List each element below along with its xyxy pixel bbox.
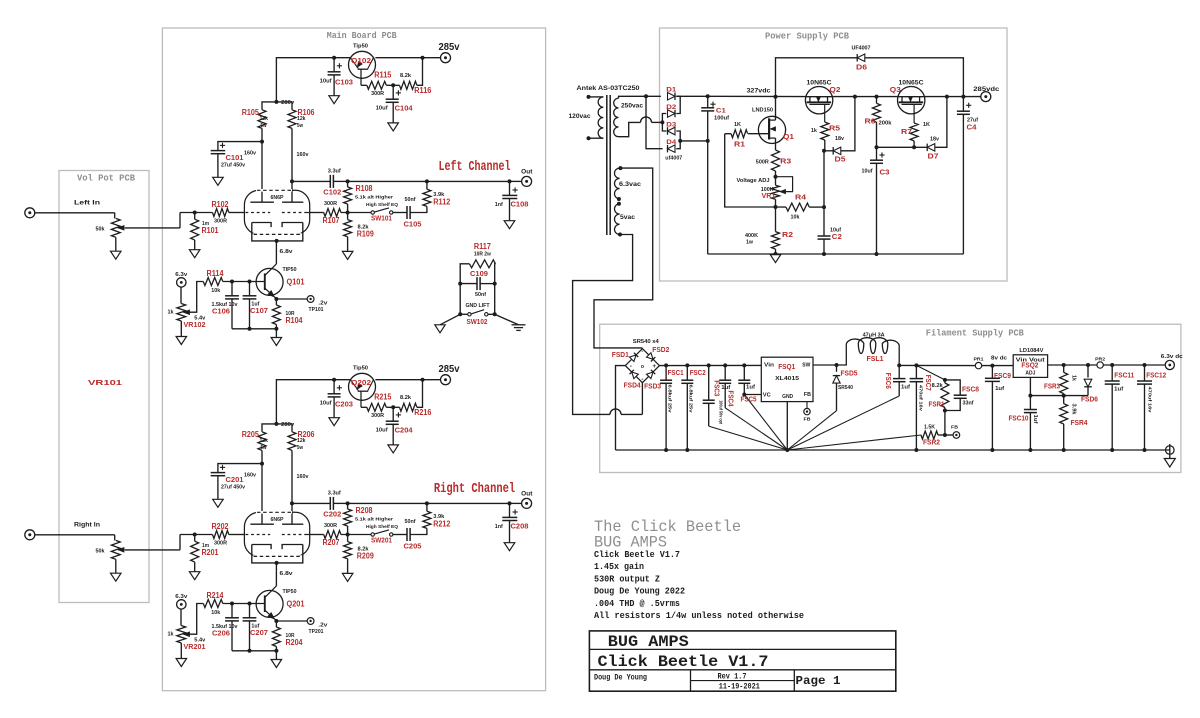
rectifier D2	[668, 110, 676, 117]
svg-text:Q202: Q202	[351, 378, 371, 387]
resistor R105 12k 5w	[258, 110, 266, 129]
svg-text:6.8v: 6.8v	[280, 571, 294, 577]
svg-text:FSC12: FSC12	[1146, 370, 1166, 379]
svg-text:uf4007: uf4007	[665, 155, 682, 161]
capacitor C103 10uf	[333, 58, 335, 72]
6.3v filament feed terminal	[177, 278, 186, 287]
svg-text:1.5K: 1.5K	[924, 425, 935, 431]
svg-text:BUG AMPS: BUG AMPS	[594, 534, 667, 552]
svg-text:XL4015: XL4015	[775, 376, 800, 382]
svg-text:ADJ: ADJ	[1025, 370, 1035, 376]
svg-text:D3: D3	[666, 121, 676, 128]
svg-text:Right Channel: Right Channel	[434, 481, 515, 497]
resistor R207 300R	[310, 534, 324, 536]
svg-text:C3: C3	[880, 168, 890, 177]
capacitor C1 100uf	[707, 96, 709, 108]
capacitor C102 3.3uf coupling	[292, 180, 330, 182]
svg-text:C202: C202	[323, 509, 341, 518]
resistor R108 5.1k	[347, 181, 349, 187]
svg-text:R108: R108	[356, 184, 373, 193]
bridge rectifier FSD1-FSD4 SR540 x4	[625, 349, 659, 383]
svg-text:Tip50: Tip50	[353, 366, 368, 372]
svg-text:6.3v: 6.3v	[175, 272, 188, 278]
ground below pot (Right)	[111, 573, 122, 581]
wire 280v to plate resistors	[262, 424, 292, 432]
svg-text:R101: R101	[202, 226, 219, 235]
svg-text:50nf: 50nf	[405, 197, 416, 203]
svg-text:SW102: SW102	[467, 317, 488, 326]
wiper wire to main board (Right)	[125, 549, 180, 551]
transformer secondary 5vac	[614, 204, 619, 235]
svg-text:FSC4: FSC4	[726, 391, 735, 407]
MOSFET Q3 10N65C	[898, 87, 925, 114]
switch SW102 ground lift	[458, 312, 462, 316]
MOSFET Q1 LND150	[758, 116, 785, 143]
output wire 6.3v dc	[1103, 364, 1165, 366]
capacitor C106 1.5kuf 10v	[225, 295, 239, 297]
svg-text:FSC1: FSC1	[668, 368, 684, 377]
resistor R101 1m to ground	[194, 213, 196, 220]
resistor R202 300R grid stopper	[180, 534, 213, 536]
regulator FSQ1 XL4015	[761, 357, 813, 401]
capacitor C201 27uf 450v	[218, 464, 262, 473]
svg-text:FSR2: FSR2	[923, 438, 940, 447]
svg-text:.2v: .2v	[318, 622, 328, 628]
svg-text:Voltage ADJ: Voltage ADJ	[737, 178, 770, 184]
svg-text:470uf 16v: 470uf 16v	[1147, 387, 1153, 413]
vacuum tube 6N6P (Left)	[244, 190, 309, 234]
FSQ1 VC wire	[744, 394, 761, 396]
ground below C204	[388, 445, 399, 453]
ground below R204	[271, 660, 282, 668]
tube plate bars	[250, 201, 274, 203]
svg-text:Doug De Young: Doug De Young	[594, 674, 647, 683]
capacitor C208 1nf	[509, 503, 511, 517]
transformer secondary 250vac	[614, 98, 619, 136]
tube grids (dashed)	[246, 534, 271, 536]
potentiometer VR102 1k 5.4v	[180, 287, 182, 303]
svg-text:FSC10: FSC10	[1009, 414, 1029, 423]
svg-text:C201: C201	[226, 475, 244, 484]
tube cathode pin	[275, 239, 279, 243]
wire 280v to plate resistors	[262, 102, 292, 110]
svg-text:300R: 300R	[371, 91, 384, 97]
svg-text:VR1: VR1	[762, 191, 776, 200]
svg-text:327vdc: 327vdc	[747, 88, 771, 95]
junction EQ mid	[346, 211, 350, 215]
svg-text:R116: R116	[414, 86, 431, 95]
MOSFET Q2 10N65C	[805, 87, 832, 114]
svg-text:12k: 12k	[260, 116, 269, 122]
svg-text:3.3uf: 3.3uf	[328, 169, 341, 175]
6.3v filament feed terminal	[177, 600, 186, 609]
svg-text:SR540: SR540	[838, 385, 853, 391]
svg-text:Q201: Q201	[287, 600, 305, 609]
transformer secondary 6.3vac	[614, 168, 619, 199]
svg-text:FSQ2: FSQ2	[1021, 360, 1038, 369]
svg-text:160v: 160v	[297, 474, 310, 480]
FSQ1 GND pin to ground rail	[786, 402, 788, 450]
svg-text:FSQ1: FSQ1	[778, 362, 795, 371]
junction D5 return	[853, 95, 857, 99]
svg-text:VR102: VR102	[184, 320, 206, 329]
svg-text:Q3: Q3	[890, 85, 901, 94]
svg-text:C101: C101	[226, 153, 244, 162]
capacitor C105 50nf	[393, 212, 407, 214]
ground below C201	[213, 499, 224, 507]
junction R215/R216/C204	[391, 405, 395, 409]
svg-text:500R: 500R	[756, 160, 769, 166]
resistor R6 200k	[875, 95, 879, 99]
svg-text:FSC11: FSC11	[1114, 370, 1134, 379]
capacitor FSC6 1uf	[898, 365, 900, 378]
svg-text:UF4007: UF4007	[852, 46, 871, 52]
input pot 50k (Left)	[114, 213, 116, 219]
chassis ground (earth)	[512, 324, 526, 326]
svg-text:TP201: TP201	[309, 629, 324, 635]
rectifier D3	[668, 127, 676, 135]
wire top node to R112 and output	[348, 180, 510, 182]
wire Q102 collector to 285v terminal	[375, 57, 440, 59]
svg-text:R207: R207	[323, 538, 340, 547]
resistor R3 500R	[772, 150, 780, 171]
resistor R204 10R	[275, 621, 277, 627]
svg-text:D6: D6	[856, 63, 867, 72]
resistor R206 12k 5w	[288, 432, 296, 451]
junction Q201 emitter	[274, 619, 278, 623]
svg-text:6N6P: 6N6P	[271, 517, 285, 523]
capacitor FSC7 470uf 16v	[914, 363, 918, 367]
svg-text:R3: R3	[780, 157, 791, 166]
resistor R102 300R grid stopper	[180, 212, 213, 214]
capacitor C207 1uf	[243, 617, 257, 619]
svg-text:TIP50: TIP50	[283, 589, 297, 595]
svg-text:1uf: 1uf	[1114, 387, 1123, 393]
svg-text:High Shelf EQ: High Shelf EQ	[366, 524, 398, 530]
transistor Q101 TIP50	[256, 268, 283, 295]
svg-text:280v: 280v	[281, 422, 295, 428]
resistor R1 1K	[725, 133, 731, 135]
svg-text:R215: R215	[374, 393, 391, 402]
resistor R208 5.1k	[347, 503, 349, 509]
capacitor C4 27uf	[962, 97, 964, 112]
ground below C108	[504, 221, 515, 229]
svg-text:1nf: 1nf	[495, 202, 503, 208]
transistor Q202 Tip50 (PNP pass)	[349, 373, 376, 400]
FSQ1 SW wire	[813, 364, 847, 366]
svg-text:285v: 285v	[439, 41, 460, 53]
bridge diode FSD2 (top-right edge)	[647, 353, 656, 362]
capacitor FSC10 1uf	[1029, 396, 1031, 410]
Out terminal	[510, 502, 522, 504]
terminal 285vdc	[981, 92, 991, 102]
svg-text:FSD2: FSD2	[652, 345, 669, 354]
filament earth ground	[1166, 446, 1175, 455]
svg-text:SW101: SW101	[371, 214, 392, 223]
svg-text:C105: C105	[404, 220, 422, 229]
svg-text:Vol Pot PCB: Vol Pot PCB	[77, 173, 135, 184]
wire R206 to tube plate / output node	[291, 450, 293, 524]
svg-text:Doug De Young 2022: Doug De Young 2022	[594, 587, 685, 597]
resistor R2 400K 1w	[772, 232, 780, 250]
svg-text:D7: D7	[928, 151, 939, 160]
node after inductor	[897, 363, 901, 367]
transistor Q201 TIP50	[256, 590, 283, 617]
svg-text:Antek AS-03TC250: Antek AS-03TC250	[577, 85, 640, 92]
svg-text:Click Beetle V1.7: Click Beetle V1.7	[598, 653, 769, 671]
svg-text:GND: GND	[782, 394, 793, 400]
svg-text:FSR3: FSR3	[1044, 382, 1060, 391]
svg-text:5vac: 5vac	[620, 214, 635, 221]
svg-text:R208: R208	[356, 506, 373, 515]
svg-text:FSD3: FSD3	[644, 382, 661, 391]
resistor R205 12k 5w	[258, 432, 266, 451]
svg-text:10uf: 10uf	[320, 401, 332, 407]
FSQ2 output wire	[1048, 364, 1097, 366]
tube cathode pin	[275, 561, 279, 565]
svg-text:FSD5: FSD5	[841, 368, 858, 377]
wire 280v node to Q102 base (vertical + top run)	[276, 58, 350, 102]
svg-text:SW: SW	[802, 362, 811, 368]
svg-text:470uf 16v: 470uf 16v	[918, 385, 924, 411]
svg-text:R202: R202	[212, 522, 229, 531]
resistor FSR4 3.9k	[1060, 404, 1068, 424]
svg-text:C1: C1	[716, 108, 726, 115]
capacitor FSC11 1uf	[1111, 365, 1113, 381]
svg-text:12k: 12k	[260, 438, 269, 444]
capacitor C204 10uf	[392, 407, 394, 421]
svg-text:6.3v: 6.3v	[175, 594, 188, 600]
wire Q202 collector to 285v terminal	[375, 379, 440, 381]
capacitor C108 1nf	[509, 181, 511, 195]
junction collector-R116 top	[421, 378, 425, 382]
svg-text:50nf: 50nf	[475, 292, 486, 298]
bridge diode FSD3 (bottom-right edge)	[647, 370, 656, 379]
resistor R212 3.9k	[426, 503, 428, 511]
wire FSR1 bottom to FB node	[944, 411, 946, 436]
svg-text:D5: D5	[835, 155, 846, 164]
zener FSD6	[1087, 365, 1089, 378]
junction EQ top	[346, 501, 350, 505]
svg-text:-: -	[641, 349, 643, 355]
svg-text:R214: R214	[207, 591, 224, 600]
output junction	[508, 501, 512, 505]
svg-text:C206: C206	[212, 628, 230, 637]
tube cathode box	[253, 555, 302, 558]
wire Q2-Q3 rail	[832, 96, 898, 98]
diode FSD5 SR540 freewheel	[836, 365, 838, 372]
svg-text:TP101: TP101	[309, 307, 324, 313]
svg-text:C102: C102	[323, 187, 341, 196]
wire cap bottoms bus	[231, 621, 233, 651]
feedback wire R1 to VR1 bottom	[725, 134, 776, 207]
wire top node to R212 and output	[348, 502, 510, 504]
svg-text:+: +	[653, 364, 657, 370]
capacitor C107 1uf	[243, 295, 257, 297]
svg-text:R2: R2	[782, 230, 793, 239]
svg-text:8.2k: 8.2k	[400, 395, 412, 401]
svg-text:6.3vac: 6.3vac	[619, 181, 642, 188]
svg-text:Power Supply PCB: Power Supply PCB	[765, 31, 849, 42]
capacitor C3 10uf	[870, 159, 883, 161]
FSQ1 FB test point	[806, 402, 808, 409]
capacitor FSC2 6.8kuf 25v	[685, 363, 689, 367]
wire to D4 cathode	[646, 96, 663, 148]
svg-text:6.3v dc: 6.3v dc	[1161, 354, 1183, 360]
wire VR102 wiper to R114	[190, 282, 203, 313]
svg-text:1K: 1K	[923, 122, 930, 128]
285v terminal (Left)	[441, 53, 451, 63]
svg-text:6N6P: 6N6P	[271, 195, 285, 201]
capacitor FSC5 1uf	[742, 363, 746, 367]
ground below R104	[271, 338, 282, 346]
resistor R201 1m to ground	[194, 535, 196, 542]
svg-text:R4: R4	[795, 193, 807, 202]
resistor FSR1 8.2k	[941, 383, 949, 408]
svg-text:10k: 10k	[211, 288, 221, 294]
svg-text:R114: R114	[207, 269, 224, 278]
switch SW201 High Shelf EQ	[371, 533, 374, 536]
svg-text:10uf: 10uf	[320, 79, 332, 85]
svg-text:.004 THD @ .5vrms: .004 THD @ .5vrms	[594, 599, 680, 609]
svg-text:Left In: Left In	[74, 200, 100, 207]
svg-text:Out: Out	[521, 170, 532, 176]
bridge bottom AC lead	[641, 383, 643, 415]
Out terminal	[510, 180, 522, 182]
junction R105/C101	[260, 140, 264, 144]
svg-text:FSC5: FSC5	[741, 394, 757, 403]
svg-text:FSL1: FSL1	[867, 354, 884, 363]
svg-text:6.8v: 6.8v	[280, 249, 294, 255]
svg-text:FB: FB	[804, 417, 812, 423]
wire cap bottoms bus	[231, 299, 233, 329]
svg-text:47μH 3A: 47μH 3A	[863, 332, 885, 338]
wire to signal ground	[440, 314, 460, 325]
svg-text:8.2k: 8.2k	[400, 73, 412, 79]
svg-text:Vin: Vin	[764, 362, 774, 368]
regulator FSQ2 LD1084V	[1013, 355, 1047, 378]
diode D6 UF4007 bypass	[776, 58, 858, 97]
bridge + output rail	[659, 364, 761, 366]
junction EQ top	[346, 179, 350, 183]
resistor FSR2 1.5K to ground fan	[921, 431, 938, 439]
svg-text:5w: 5w	[261, 445, 268, 451]
svg-text:18v: 18v	[930, 137, 940, 143]
Filament Supply PCB outline	[600, 324, 1181, 472]
junction R5/D5/C2	[822, 149, 826, 153]
filament ground rail	[616, 449, 1170, 451]
vacuum tube 6N6P (Right)	[244, 512, 309, 556]
svg-text:R117: R117	[474, 242, 491, 251]
svg-text:1k: 1k	[1070, 375, 1076, 381]
junction R204 bottom	[274, 649, 278, 653]
svg-text:8.2k: 8.2k	[932, 383, 943, 389]
svg-text:Out: Out	[521, 492, 532, 498]
filament feed wire A (5vac bottom lead)	[573, 235, 633, 415]
resistor R104 10R	[275, 299, 277, 305]
svg-text:C2: C2	[832, 232, 842, 241]
capacitor C101 27uf 450v	[218, 142, 262, 151]
junction R104 bottom	[274, 327, 278, 331]
svg-text:50k: 50k	[96, 549, 106, 555]
junction R201/R202	[193, 533, 197, 537]
resistor R114 10k	[203, 278, 223, 286]
svg-text:1K: 1K	[734, 122, 741, 128]
svg-text:PR2: PR2	[1095, 356, 1105, 362]
output junction	[508, 179, 512, 183]
svg-text:R5: R5	[829, 124, 840, 133]
svg-text:Q2: Q2	[830, 85, 841, 94]
test point PR1 8v dc	[975, 362, 981, 368]
junction plate/coupling-cap node	[290, 501, 294, 505]
svg-text:300R: 300R	[214, 541, 227, 547]
svg-text:FSC6: FSC6	[884, 373, 893, 389]
resistor R214 10k	[203, 600, 223, 608]
capacitor FSC4 1uf	[723, 363, 727, 367]
title block table	[589, 631, 895, 691]
filament feed wire B (6.3vac top lead)	[594, 168, 653, 348]
svg-text:300R: 300R	[324, 201, 337, 207]
svg-text:5.1k alt Higher: 5.1k alt Higher	[355, 195, 393, 201]
svg-text:3.9k: 3.9k	[1070, 404, 1076, 415]
junction D1 anode / D4 feed	[644, 94, 648, 98]
svg-text:33nf: 33nf	[963, 401, 974, 407]
svg-text:Q101: Q101	[287, 278, 305, 287]
svg-text:R7: R7	[901, 127, 912, 136]
svg-text:5w: 5w	[261, 123, 268, 129]
capacitor C109 50nf	[460, 283, 477, 285]
svg-text:FSC9: FSC9	[994, 371, 1011, 380]
svg-text:High Shelf EQ: High Shelf EQ	[366, 202, 398, 208]
svg-text:5w: 5w	[297, 123, 304, 129]
wire R105 to tube plate	[261, 128, 263, 202]
svg-text:1uf: 1uf	[901, 385, 910, 391]
svg-text:TIP50: TIP50	[283, 267, 297, 273]
tube grids (dashed)	[246, 212, 271, 214]
svg-text:FSD6: FSD6	[1081, 395, 1098, 404]
svg-text:1nf: 1nf	[495, 524, 503, 530]
bridge diode FSD1 (top-left edge)	[630, 353, 639, 362]
svg-text:D2: D2	[666, 104, 676, 111]
input pot 50k (Right)	[114, 535, 116, 541]
svg-text:R115: R115	[374, 71, 391, 80]
test point TP101 .2v	[276, 298, 307, 300]
junction R3/VR1	[774, 175, 778, 179]
wire FSC7 node to divider FSR1	[916, 365, 945, 380]
capacitor C203 10uf	[333, 380, 335, 394]
capacitor C202 3.3uf coupling	[292, 502, 330, 504]
capacitor FSC1 6.8kuf 25v	[664, 363, 668, 367]
svg-text:300R: 300R	[371, 413, 384, 419]
bridge bus wires	[662, 114, 666, 132]
capacitor FSC12 470uf 16v	[1144, 365, 1146, 381]
svg-text:100uf 50v opt: 100uf 50v opt	[718, 400, 724, 424]
zener D5 18v SR540	[824, 150, 833, 152]
FSQ2 ADJ pin wire	[1029, 377, 1031, 395]
wire VR202 wiper to R214	[190, 604, 203, 635]
svg-text:400K: 400K	[745, 233, 758, 239]
svg-text:C106: C106	[212, 306, 230, 315]
svg-text:R209: R209	[357, 552, 374, 561]
svg-text:530R output Z: 530R output Z	[594, 574, 660, 584]
svg-text:1k: 1k	[168, 632, 175, 638]
ground below VR102	[176, 337, 187, 345]
terminal 6.3v dc	[1165, 360, 1174, 369]
svg-text:R212: R212	[433, 520, 450, 529]
svg-text:C203: C203	[335, 399, 353, 408]
junction R101/R102	[193, 211, 197, 215]
svg-text:3.3uf: 3.3uf	[328, 491, 341, 497]
